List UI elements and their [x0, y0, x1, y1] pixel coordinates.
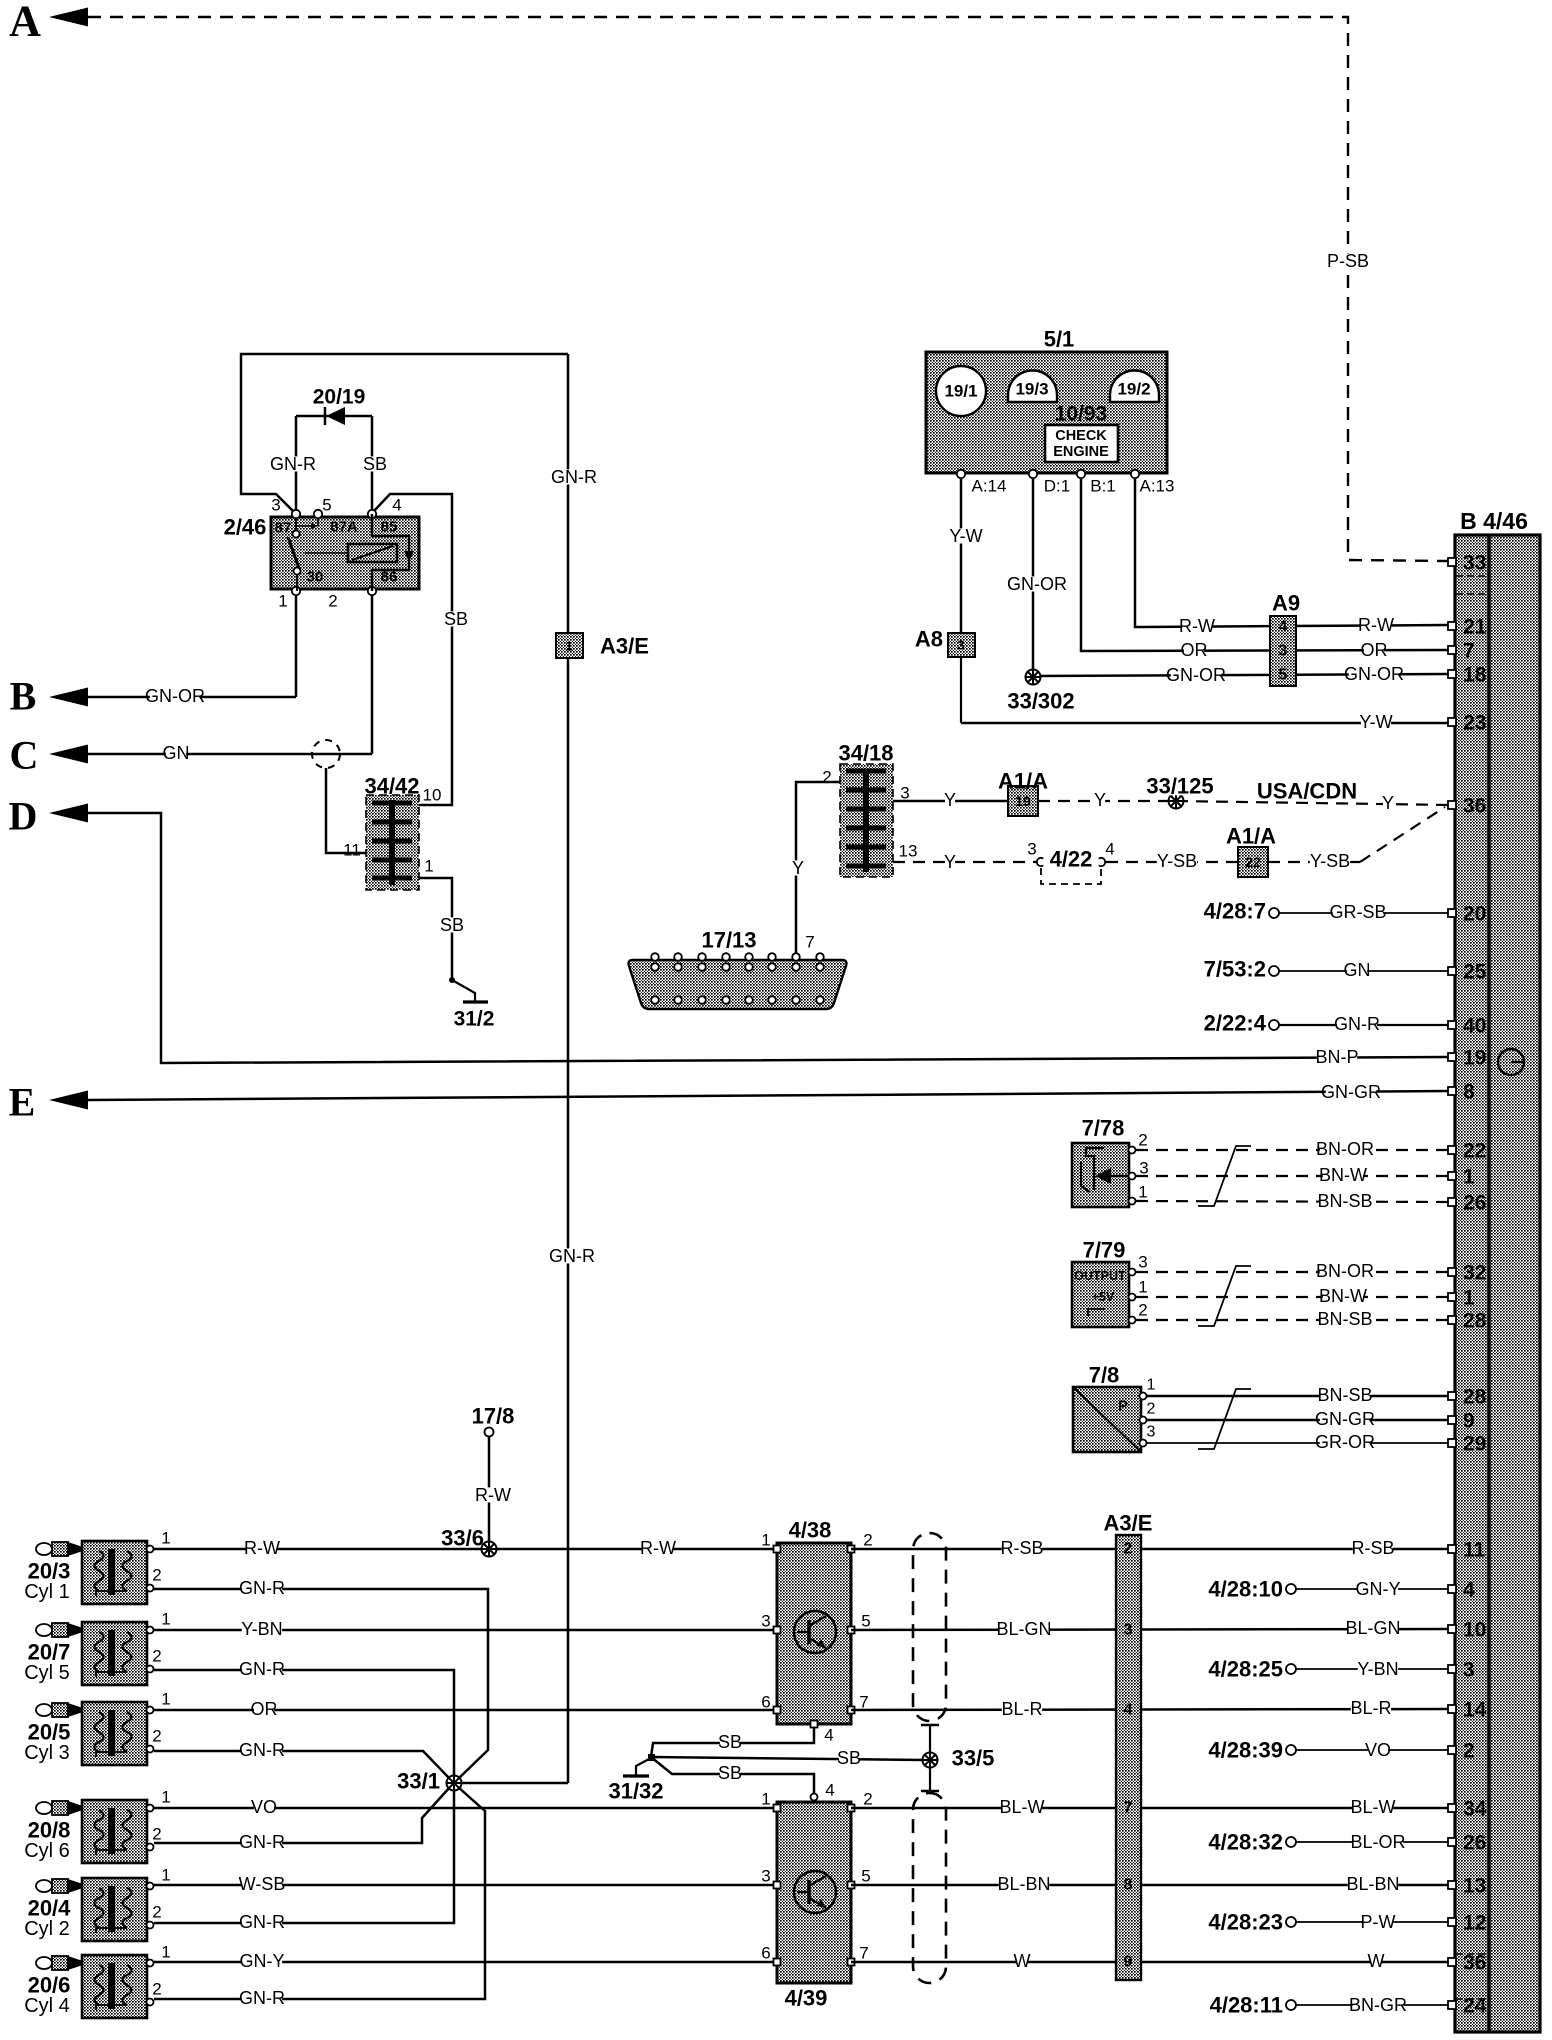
svg-text:ENGINE: ENGINE: [1053, 444, 1109, 460]
svg-text:1: 1: [1138, 1183, 1147, 1202]
svg-text:BL-W: BL-W: [1351, 1797, 1396, 1817]
svg-text:Cyl 5: Cyl 5: [24, 1662, 70, 1684]
svg-text:A3/E: A3/E: [600, 634, 649, 659]
splice 33/1: [446, 1775, 463, 1792]
wire Y-BN from coil 20/7 to 4/38 pin 3: [154, 1629, 777, 1632]
svg-text:4/28:10: 4/28:10: [1208, 1577, 1283, 1602]
wire W from 4/39 pin 7 to B4/46 pin 35: [851, 1961, 1448, 1964]
wire BN-SB 7/8 to pin 28: [1147, 1395, 1448, 1397]
ground 31/32: [648, 1754, 655, 1761]
ignition coil 20/6 Cyl 4 body: [82, 1955, 147, 2018]
shield drain bars at 33/5: [921, 1724, 939, 1727]
17/13 pins bottom row: [651, 996, 659, 1004]
4/38 transistor symbol: [794, 1611, 836, 1653]
svg-text:E: E: [9, 1080, 36, 1125]
34/42 contact tooth: [372, 858, 412, 863]
svg-text:Cyl 1: Cyl 1: [24, 1581, 70, 1603]
svg-text:2: 2: [152, 1647, 161, 1666]
svg-text:R-W: R-W: [244, 1538, 280, 1558]
svg-text:W: W: [1014, 1951, 1031, 1971]
ignition coil 20/3 Cyl 1 body: [82, 1541, 147, 1604]
svg-text:GN: GN: [1344, 960, 1371, 980]
svg-text:33/302: 33/302: [1007, 689, 1074, 714]
svg-text:3: 3: [1463, 1659, 1475, 1682]
svg-text:5: 5: [322, 496, 331, 515]
svg-text:33/1: 33/1: [397, 1769, 440, 1794]
svg-text:B 4/46: B 4/46: [1460, 508, 1528, 534]
wire GN-R coil 20/4 pin 2 to splice 33/1: [154, 1790, 454, 1923]
svg-text:1: 1: [1138, 1278, 1147, 1297]
wire R-W from coil 20/3 to 4/38 pin 1: [154, 1548, 777, 1551]
svg-text:GR-SB: GR-SB: [1329, 902, 1386, 922]
svg-text:5: 5: [861, 1612, 870, 1631]
svg-text:4: 4: [1124, 1702, 1133, 1719]
connector 34/18 body: [840, 764, 893, 877]
svg-text:2: 2: [1138, 1301, 1147, 1320]
svg-text:36: 36: [1463, 1952, 1486, 1975]
B 4/46 inner separator line: [1487, 535, 1491, 2032]
svg-text:4/38: 4/38: [789, 1518, 832, 1543]
svg-text:9: 9: [1463, 1410, 1475, 1433]
svg-text:GN-R: GN-R: [270, 454, 316, 474]
svg-text:BL-GN: BL-GN: [996, 1619, 1051, 1639]
B4/46 pin 7 at y=650: [1448, 646, 1456, 654]
relay coil bracket to pin 2: [372, 514, 409, 591]
svg-text:W-SB: W-SB: [239, 1874, 286, 1894]
wire VO from coil 20/8 to 4/39 pin 1: [154, 1807, 777, 1810]
svg-text:4/22: 4/22: [1050, 847, 1093, 872]
svg-text:R-W: R-W: [1358, 615, 1394, 635]
4/39 pin squares: [774, 1805, 781, 1812]
node D arrow: [49, 804, 88, 823]
ignition coil 20/4 Cyl 2 body: [82, 1878, 147, 1941]
svg-text:20/3: 20/3: [28, 1559, 71, 1584]
svg-text:2: 2: [1147, 1401, 1156, 1418]
wire W-SB from coil 20/4 to 4/39 pin 3: [154, 1884, 777, 1887]
svg-text:34/18: 34/18: [838, 741, 893, 766]
B4/46 pin 26 at y=1842: [1448, 1838, 1456, 1846]
svg-text:BN-W: BN-W: [1319, 1165, 1367, 1185]
wire Y dashed from 34/18 pin 13 to 4/22: [893, 861, 1036, 863]
svg-text:4/39: 4/39: [785, 1986, 828, 2011]
20/8 pin 2: [147, 1844, 154, 1851]
wire BL-BN from 4/39 pin 5 to B4/46 pin 13: [851, 1884, 1448, 1887]
4/38 pin squares: [774, 1546, 781, 1553]
svg-text:26: 26: [1463, 1832, 1486, 1855]
svg-text:8: 8: [1124, 1877, 1133, 1894]
svg-text:22: 22: [1245, 854, 1261, 870]
svg-text:GN-OR: GN-OR: [1007, 574, 1067, 594]
34/42 contact rail: [389, 800, 395, 885]
connector A3/E (bottom) body: [1116, 1535, 1141, 1980]
34/42 contact tooth: [372, 820, 412, 825]
spark plug for 20/8: [36, 1801, 80, 1815]
B4/46 pin 28 at y=1320: [1448, 1316, 1456, 1324]
relay pin 4: [368, 510, 376, 518]
svg-text:A3/E: A3/E: [1104, 1511, 1153, 1536]
svg-text:R-W: R-W: [475, 1485, 511, 1505]
instrument cluster 5/1 body: [926, 352, 1167, 473]
svg-text:A: A: [9, 0, 41, 46]
svg-text:P-SB: P-SB: [1327, 251, 1369, 271]
wire Y-SB dashed from A1/A 22 to junction at pin 36: [1268, 861, 1360, 863]
svg-text:4: 4: [1463, 1579, 1475, 1602]
wire GN-R from diode to relay pin 3: [295, 416, 298, 514]
connector A1/A (19): [1008, 786, 1038, 816]
svg-text:VO: VO: [251, 1797, 277, 1817]
svg-text:A8: A8: [915, 627, 943, 652]
svg-text:C: C: [10, 733, 39, 778]
svg-text:1: 1: [161, 1788, 170, 1807]
B4/46 pin 36 at y=805: [1448, 801, 1456, 809]
svg-text:11: 11: [343, 841, 361, 860]
20/4 pin 1: [147, 1883, 154, 1890]
wire Y-SB dashed from 4/22 to A1/A (22): [1106, 861, 1238, 863]
wire OR from cluster B:1 to B4/46 pin 7: [1081, 478, 1448, 651]
CHECK ENGINE lamp 10/93: [1045, 425, 1118, 462]
B4/46 pin 19 at y=1057: [1448, 1053, 1456, 1061]
svg-text:Y: Y: [1382, 793, 1394, 813]
B4/46 pin 1 at y=1297: [1448, 1293, 1456, 1301]
ignition coil 20/7 Cyl 5 body: [82, 1622, 147, 1685]
svg-text:33/6: 33/6: [441, 1526, 484, 1551]
wire BN-W dashed 7/79 to pin 1: [1136, 1296, 1448, 1298]
wire R-SB from 4/38 pin 2 to B4/46 pin 11: [851, 1548, 1448, 1551]
wire GN-OR from cluster D:1 to splice 33/302: [1032, 478, 1035, 677]
connector A9 body: [1270, 616, 1296, 686]
wire GN-OR from relay pin1 to B: [88, 696, 296, 699]
svg-text:33/5: 33/5: [952, 1746, 995, 1771]
svg-text:19/3: 19/3: [1015, 380, 1048, 399]
relay pin 1: [292, 587, 300, 595]
svg-text:BL-R: BL-R: [1001, 1699, 1042, 1719]
34/18 contact tooth: [846, 788, 886, 793]
twisted-pair slash 7/78: [1198, 1146, 1251, 1206]
svg-text:31/2: 31/2: [454, 1008, 495, 1031]
svg-text:5: 5: [861, 1867, 870, 1886]
in-line connector 4/22: [1037, 858, 1045, 866]
svg-text:2: 2: [1138, 1131, 1147, 1150]
34/18 contact tooth: [846, 807, 886, 812]
svg-text:Y-W: Y-W: [949, 526, 982, 546]
sensor 7/79 body: [1072, 1262, 1129, 1327]
svg-text:R-W: R-W: [1179, 616, 1215, 636]
B4/46 pin 34 at y=1808: [1448, 1804, 1456, 1812]
34/18 contact tooth: [846, 769, 886, 774]
svg-text:B:1: B:1: [1090, 477, 1116, 496]
B4/46 pin 13 at y=1885: [1448, 1881, 1456, 1889]
svg-text:CHECK: CHECK: [1055, 428, 1107, 444]
wire GR-OR 7/8 to pin 29: [1147, 1442, 1448, 1444]
svg-text:1: 1: [1463, 1166, 1475, 1189]
svg-text:20/7: 20/7: [28, 1640, 71, 1665]
svg-text:20/6: 20/6: [28, 1973, 71, 1998]
svg-text:P-W: P-W: [1361, 1912, 1396, 1932]
svg-text:18: 18: [1463, 664, 1487, 687]
svg-text:OR: OR: [251, 1699, 278, 1719]
grommet (dashed circle) on C wire: [312, 740, 340, 768]
svg-text:D:1: D:1: [1044, 477, 1070, 496]
wire BL-GN from 4/38 pin 5 to B4/46 pin 10: [851, 1629, 1448, 1630]
splice 33/125: [1168, 793, 1185, 810]
twisted-pair slash 7/79: [1198, 1266, 1251, 1326]
svg-text:2: 2: [152, 1903, 161, 1922]
svg-text:14: 14: [1463, 1699, 1487, 1722]
label 33/125: [1138, 777, 1221, 796]
svg-text:B: B: [10, 674, 37, 719]
svg-text:34: 34: [1463, 1798, 1487, 1821]
svg-text:A:13: A:13: [1140, 477, 1175, 496]
svg-text:3: 3: [1027, 840, 1036, 859]
B4/46 pin 25 at y=971: [1448, 967, 1456, 975]
svg-text:2/46: 2/46: [224, 515, 267, 540]
wire GN-R coil 20/5 pin 2 to splice 33/1: [154, 1751, 450, 1779]
wire GN-GR 7/8 to pin 9: [1147, 1419, 1448, 1421]
svg-text:34/42: 34/42: [364, 774, 419, 799]
wire GN-Y from coil 20/6 to 4/39 pin 6: [154, 1961, 777, 1964]
B4/46 pin 9 at y=1420: [1448, 1416, 1456, 1424]
gauge 19/2: [1110, 370, 1159, 402]
svg-text:4/28:39: 4/28:39: [1208, 1738, 1283, 1763]
svg-text:Y: Y: [792, 858, 804, 878]
B4/46 pin 4 at y=1589: [1448, 1585, 1456, 1593]
wire BL-R from 4/38 pin 7 to B4/46 pin 14: [851, 1709, 1448, 1710]
svg-text:+5V: +5V: [1092, 1290, 1115, 1304]
ignition coil 20/8 Cyl 6 body: [82, 1800, 147, 1863]
svg-text:1: 1: [161, 1529, 170, 1548]
20/5 pin 2: [147, 1746, 154, 1753]
svg-text:7/79: 7/79: [1083, 1238, 1126, 1263]
wire BN-W dashed 7/78 to pin 1: [1136, 1175, 1448, 1177]
svg-text:9: 9: [1124, 1954, 1133, 1971]
svg-text:2: 2: [152, 1727, 161, 1746]
B4/46 pin 18 at y=674: [1448, 670, 1456, 678]
svg-text:1: 1: [761, 1790, 770, 1809]
svg-text:GN-Y: GN-Y: [1356, 1579, 1401, 1599]
svg-text:VO: VO: [1365, 1740, 1391, 1760]
B 4/46 clip symbol: [1498, 1049, 1524, 1075]
svg-text:33/125: 33/125: [1146, 774, 1213, 799]
svg-text:3: 3: [761, 1867, 770, 1886]
svg-text:3: 3: [957, 638, 964, 653]
ground 31/2: [449, 977, 455, 983]
svg-text:4/28:25: 4/28:25: [1208, 1657, 1283, 1682]
wire BL-W from 4/39 pin 2 to B4/46 pin 34: [851, 1807, 1448, 1810]
svg-text:2: 2: [863, 1531, 872, 1550]
relay 2/46 body: [271, 517, 419, 589]
svg-text:40: 40: [1463, 1015, 1486, 1038]
svg-text:4: 4: [824, 1726, 833, 1745]
wire BN-OR dashed 7/79 to pin 32: [1136, 1271, 1448, 1273]
B4/46 pin 3 at y=1669: [1448, 1665, 1456, 1673]
svg-text:BL-OR: BL-OR: [1350, 1832, 1405, 1852]
svg-text:Y-SB: Y-SB: [1157, 851, 1197, 871]
B4/46 pin 1 at y=1176: [1448, 1172, 1456, 1180]
shield capsule around 4/38 wires: [913, 1533, 946, 1721]
B4/46 pin 14 at y=1709: [1448, 1705, 1456, 1713]
relay coil: [348, 544, 397, 562]
4/39 transistor symbol: [794, 1871, 836, 1913]
relay internal 87-87A link: [294, 525, 314, 527]
svg-text:BN-P: BN-P: [1315, 1047, 1358, 1067]
svg-text:4: 4: [1279, 619, 1288, 636]
connector A1/A (22): [1238, 847, 1268, 877]
svg-text:A:14: A:14: [972, 477, 1007, 496]
svg-text:3: 3: [761, 1612, 770, 1631]
svg-text:1: 1: [1147, 1377, 1156, 1394]
svg-text:2/22:4: 2/22:4: [1204, 1011, 1267, 1036]
svg-text:BL-W: BL-W: [1000, 1797, 1045, 1817]
power stage 4/38 body: [777, 1543, 851, 1724]
svg-text:Cyl 2: Cyl 2: [24, 1918, 70, 1940]
svg-text:Cyl 6: Cyl 6: [24, 1840, 70, 1862]
wire GN branch from grommet down to 34/42 pin 11: [326, 768, 366, 853]
svg-text:2: 2: [863, 1790, 872, 1809]
svg-text:R-W: R-W: [640, 1538, 676, 1558]
svg-text:20: 20: [1463, 903, 1486, 926]
svg-text:11: 11: [1463, 1539, 1486, 1562]
svg-text:SB: SB: [444, 609, 468, 629]
svg-text:3: 3: [1139, 1159, 1148, 1178]
wire GN-R main vertical: [567, 354, 570, 1783]
svg-text:OR: OR: [1361, 640, 1388, 660]
svg-text:2: 2: [1124, 1541, 1133, 1558]
svg-text:Y-BN: Y-BN: [241, 1619, 282, 1639]
B4/46 pin 28 at y=1396: [1448, 1392, 1456, 1400]
svg-text:BN-SB: BN-SB: [1317, 1385, 1372, 1405]
svg-text:17/8: 17/8: [472, 1404, 515, 1429]
svg-text:10: 10: [423, 786, 442, 805]
wire GN-R coil 20/8 pin 2 to splice 33/1: [154, 1787, 450, 1843]
wire GN-R top loop from relay area to main GN-R line: [241, 354, 568, 514]
7/8 pins: [1140, 1393, 1147, 1400]
wire Y from 34/18 pin 2 down to 17/13 pin 7: [796, 782, 840, 957]
B4/46 pin 24 at y=2005: [1448, 2001, 1456, 2009]
svg-text:A1/A: A1/A: [1226, 824, 1276, 849]
svg-text:BL-GN: BL-GN: [1345, 1618, 1400, 1638]
spark plug for 20/5: [36, 1703, 80, 1717]
wire BN-SB dashed 7/79 to pin 28: [1136, 1319, 1448, 1321]
svg-text:6: 6: [761, 1693, 770, 1712]
svg-text:4: 4: [1105, 840, 1114, 859]
svg-text:1: 1: [761, 1531, 770, 1550]
svg-text:13: 13: [899, 842, 918, 861]
34/18 contact tooth: [846, 845, 886, 850]
wire BN-SB dashed 7/78 to pin 26: [1136, 1201, 1448, 1202]
B4/46 pin 26 at y=1202: [1448, 1198, 1456, 1206]
svg-text:1: 1: [161, 1690, 170, 1709]
wire SB from relay pin 4 to 34/42 pin 10: [374, 494, 452, 805]
34/42 contact tooth: [372, 876, 412, 881]
wire SB from 34/42 pin 1 to ground 31/2: [419, 878, 452, 980]
svg-text:SB: SB: [718, 1732, 742, 1752]
svg-text:7/78: 7/78: [1082, 1116, 1125, 1141]
svg-text:1: 1: [161, 1866, 170, 1885]
svg-text:GN-Y: GN-Y: [240, 1951, 285, 1971]
sensor 7/78 body: [1072, 1143, 1129, 1207]
svg-text:4: 4: [392, 496, 401, 515]
svg-text:BN-OR: BN-OR: [1316, 1139, 1374, 1159]
svg-text:7: 7: [805, 933, 814, 952]
spark plug for 20/4: [36, 1879, 80, 1893]
B4/46 pin 12 at y=1922: [1448, 1918, 1456, 1926]
svg-text:BN-W: BN-W: [1319, 1286, 1367, 1306]
wire R-W from 17/8 to splice 33/6: [488, 1437, 491, 1549]
svg-text:4: 4: [825, 1781, 834, 1800]
svg-text:5: 5: [1279, 667, 1288, 684]
svg-text:BN-SB: BN-SB: [1317, 1191, 1372, 1211]
B4/46 pin 11 at y=1549: [1448, 1545, 1456, 1553]
svg-text:1: 1: [278, 592, 287, 611]
B4/46 pin 2 at y=1750: [1448, 1746, 1456, 1754]
20/3 pin 2: [147, 1585, 154, 1592]
relay pin 2: [368, 587, 376, 595]
svg-text:28: 28: [1463, 1310, 1487, 1333]
svg-text:7: 7: [859, 1944, 868, 1963]
svg-text:Y-BN: Y-BN: [1357, 1659, 1398, 1679]
svg-text:GN-R: GN-R: [239, 1740, 285, 1760]
power stage 4/39 body: [777, 1802, 851, 1983]
wire relay pin1 drop: [295, 591, 298, 697]
7/78 pins: [1129, 1147, 1136, 1154]
svg-text:1: 1: [424, 857, 433, 876]
splice 33/302: [1025, 669, 1042, 686]
B4/46 pin 21 at y=626: [1448, 622, 1456, 630]
svg-text:85: 85: [381, 519, 398, 536]
svg-text:GN-GR: GN-GR: [1321, 1082, 1381, 1102]
svg-text:2: 2: [328, 592, 337, 611]
gauge 19/3: [1008, 370, 1057, 402]
svg-text:BN-GR: BN-GR: [1349, 1995, 1407, 2015]
svg-text:23: 23: [1463, 712, 1486, 735]
svg-text:31/32: 31/32: [608, 1779, 663, 1804]
svg-text:20/5: 20/5: [28, 1720, 71, 1745]
svg-text:13: 13: [1463, 1875, 1486, 1898]
B 4/46 section separator dashes: [1456, 575, 1489, 577]
B4/46 pin 32 at y=1272: [1448, 1268, 1456, 1276]
svg-text:12: 12: [1463, 1912, 1486, 1935]
34/18 contact rail: [863, 769, 869, 872]
sensor 7/8 body: [1073, 1387, 1141, 1452]
svg-text:87: 87: [275, 520, 292, 537]
svg-text:36: 36: [1463, 795, 1486, 818]
label 33/1: [385, 1772, 440, 1791]
svg-text:Y-W: Y-W: [1359, 712, 1392, 732]
svg-text:4/28:23: 4/28:23: [1208, 1910, 1283, 1935]
relay internal switch: [293, 531, 300, 538]
svg-text:1: 1: [565, 639, 572, 654]
svg-text:GN-R: GN-R: [549, 1246, 595, 1266]
svg-text:1: 1: [161, 1610, 170, 1629]
svg-text:1: 1: [161, 1943, 170, 1962]
svg-text:GN-R: GN-R: [239, 1988, 285, 2008]
svg-text:GN-OR: GN-OR: [1344, 664, 1404, 684]
svg-text:R-SB: R-SB: [1351, 1538, 1394, 1558]
wire SB from junction to splice 33/5: [651, 1757, 923, 1760]
svg-text:4/28:11: 4/28:11: [1210, 1993, 1283, 2018]
svg-text:30: 30: [307, 569, 324, 586]
20/7 pin 2: [147, 1666, 154, 1673]
wire GN-GR from B4/46 pin 8 to E: [88, 1091, 1448, 1100]
svg-text:10: 10: [1463, 1619, 1486, 1642]
svg-text:GN-R: GN-R: [239, 1578, 285, 1598]
svg-text:17/13: 17/13: [701, 928, 756, 953]
svg-text:1: 1: [1463, 1287, 1475, 1310]
svg-text:OUTPUT: OUTPUT: [1074, 1269, 1126, 1283]
splice 33/5: [922, 1752, 939, 1769]
diode 20/19 symbol: [326, 407, 345, 425]
wire GN-R coil 20/7 pin 2 to splice 33/1: [154, 1670, 454, 1776]
